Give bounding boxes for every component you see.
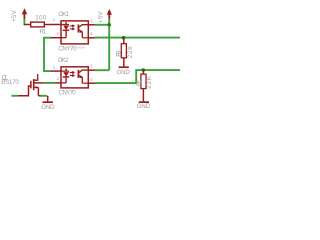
svg-text:22K: 22K [127, 46, 134, 58]
svg-text:OK1: OK1 [58, 11, 69, 18]
svg-text:CNY70: CNY70 [58, 46, 77, 53]
svg-text:+5V: +5V [97, 11, 104, 23]
svg-text:BS170: BS170 [1, 79, 19, 86]
svg-text:GND: GND [41, 104, 55, 111]
svg-text:+5V: +5V [11, 9, 18, 21]
svg-text:R3: R3 [116, 50, 123, 56]
svg-text:100: 100 [35, 15, 46, 22]
svg-text:OK2: OK2 [58, 57, 69, 64]
svg-text:CNY70: CNY70 [59, 90, 77, 97]
svg-text:R1: R1 [39, 28, 46, 35]
svg-text:GND: GND [117, 69, 131, 76]
svg-text:22K: 22K [146, 76, 153, 89]
svg-text:R2: R2 [136, 80, 143, 86]
svg-text:GND: GND [137, 103, 151, 110]
